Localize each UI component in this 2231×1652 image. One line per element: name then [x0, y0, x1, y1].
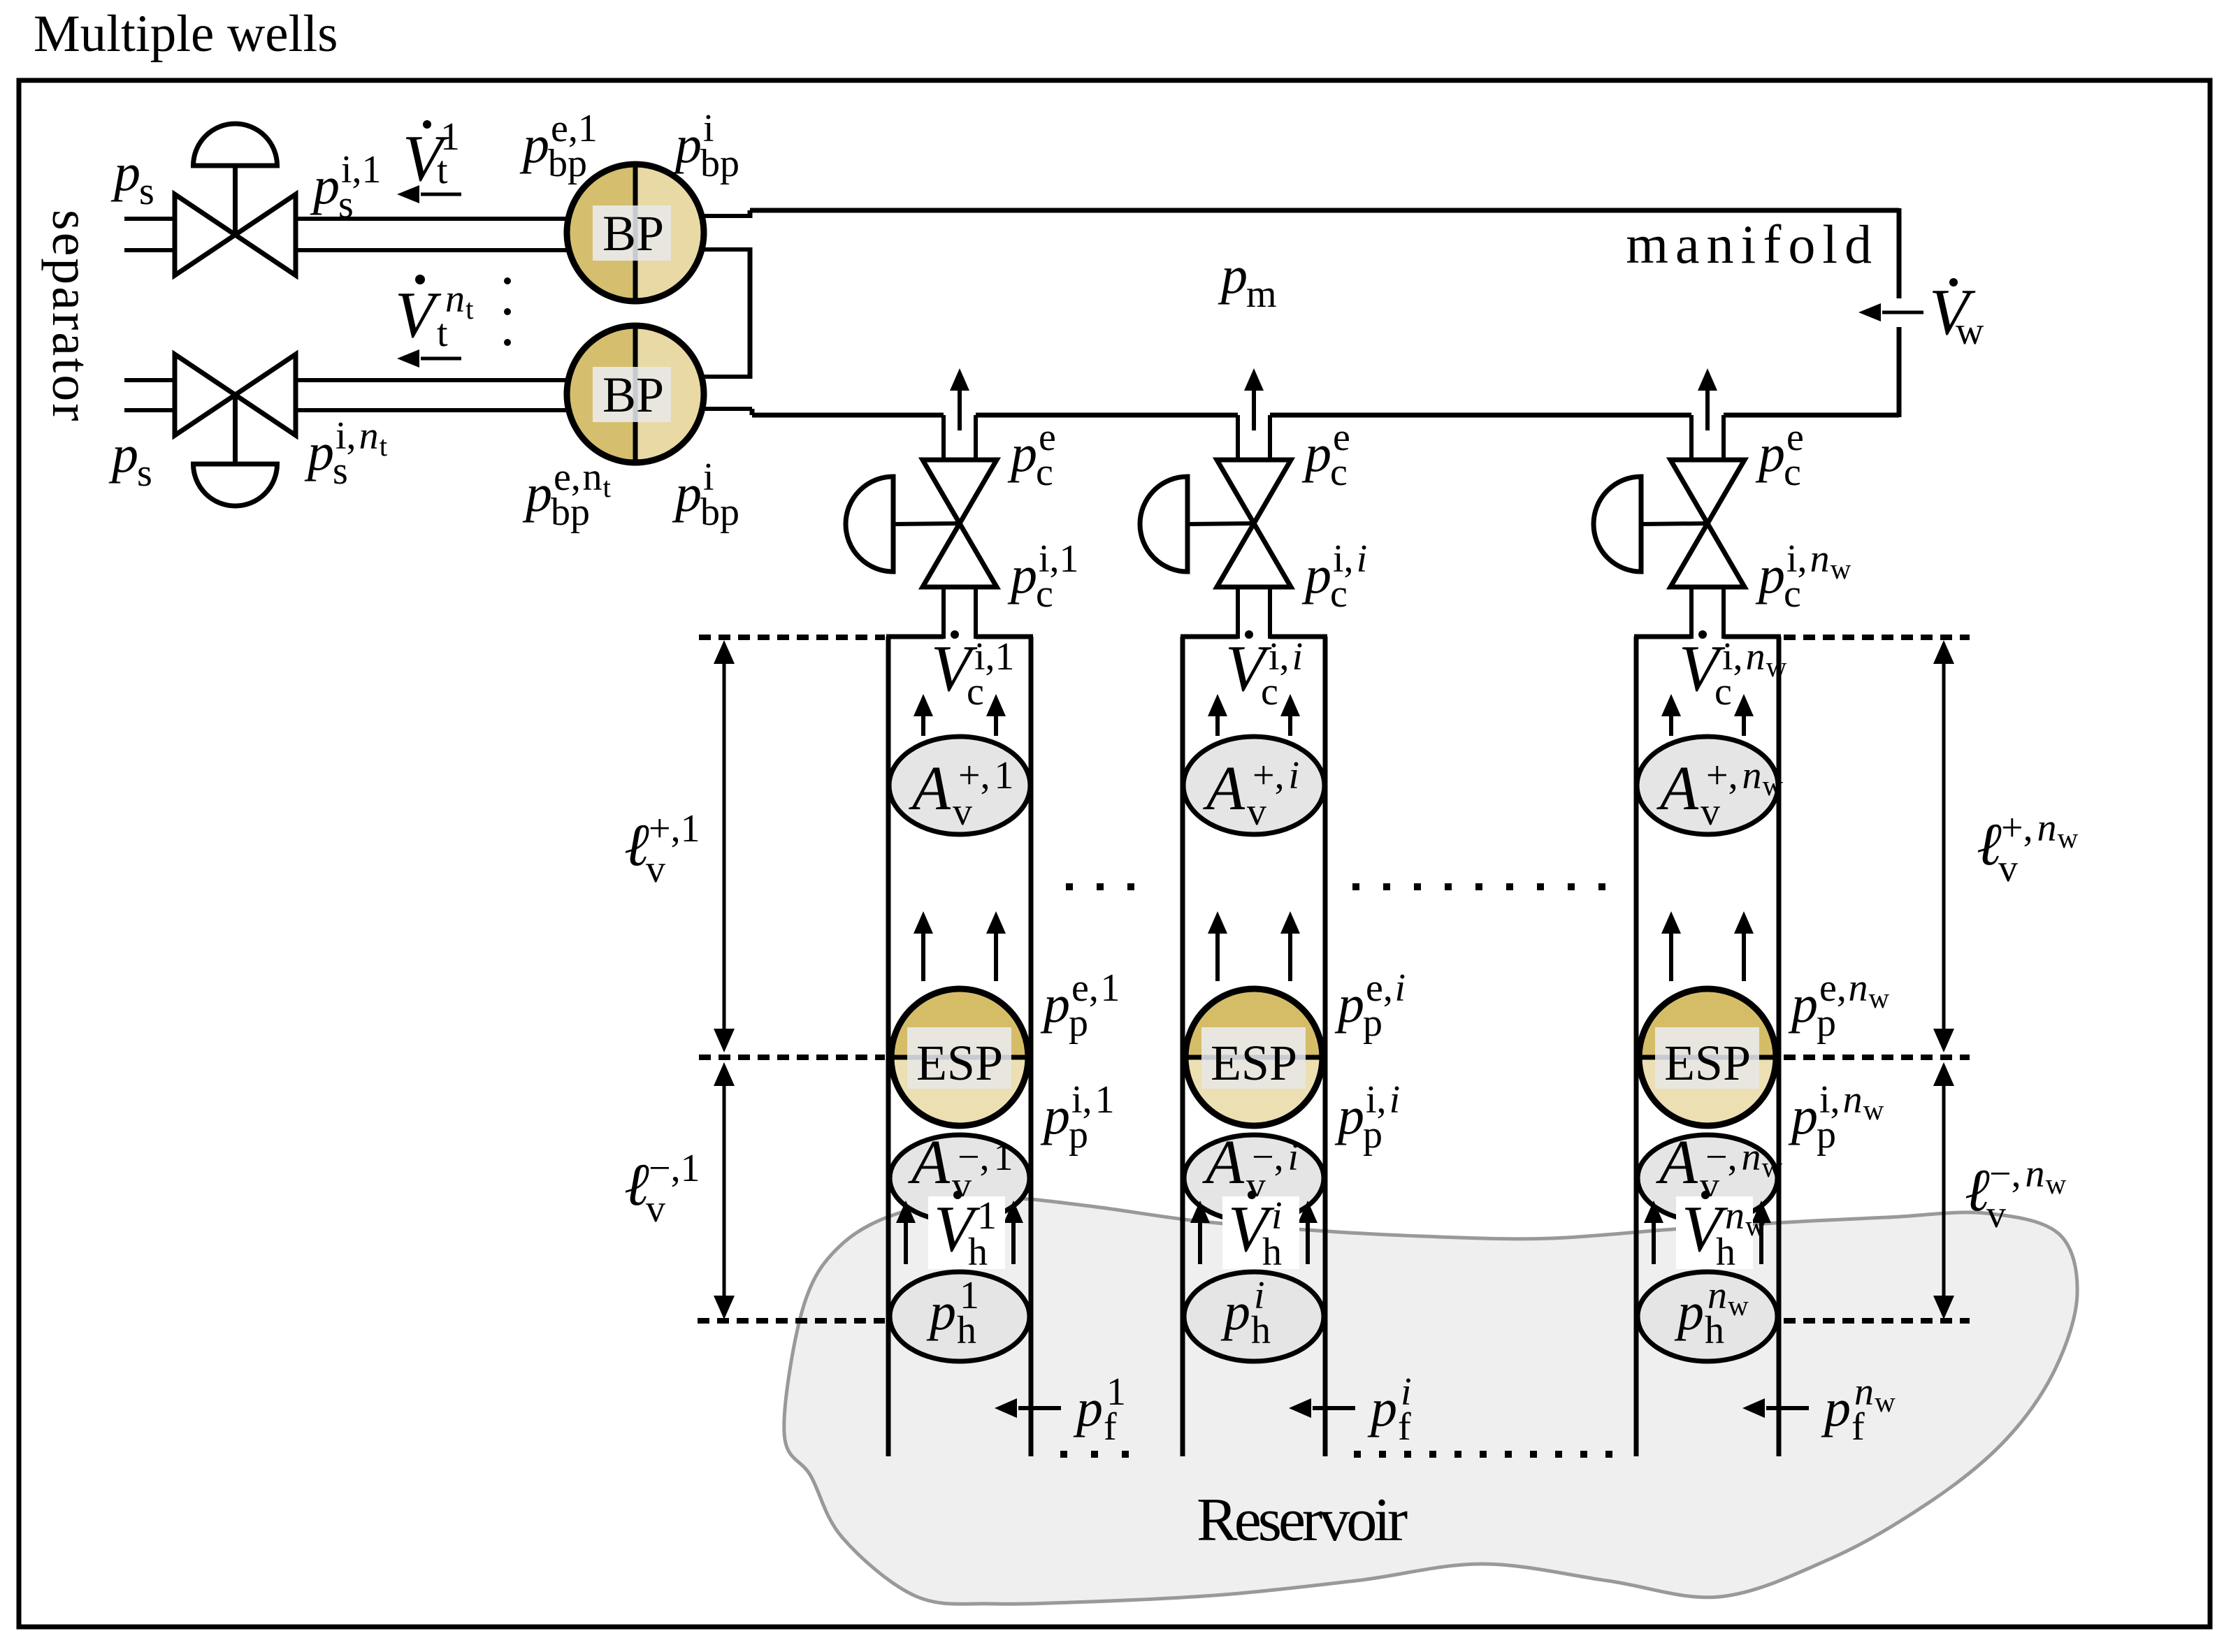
svg-text:A: A: [1203, 754, 1246, 823]
svg-text:w: w: [1745, 1210, 1766, 1242]
svg-text:f: f: [1851, 1405, 1865, 1449]
svg-text:v: v: [646, 1187, 665, 1231]
label Vdot_h well Wn_w: [1676, 1196, 1753, 1269]
valve area ellipse A_v- well Wn_w: [1638, 1135, 1777, 1222]
reservoir feed pressure arrow p_f well W1: [1018, 1406, 1061, 1410]
choke C3 dome actuator: [1641, 523, 1707, 524]
svg-text:bp: bp: [700, 142, 739, 185]
svg-text:v: v: [953, 790, 972, 834]
choke valve C2 body: [1217, 460, 1291, 523]
bottom-hole pressure ellipse p_h well Wi: [1184, 1272, 1324, 1361]
svg-text:p: p: [1040, 1087, 1070, 1145]
dashed datum line wellhead level (right): [1784, 635, 1970, 640]
svg-text:p: p: [1007, 546, 1037, 604]
well Wi flow arrows above A_v+: [1215, 715, 1220, 736]
svg-text:p: p: [1334, 975, 1364, 1034]
svg-text:t: t: [380, 430, 388, 462]
svg-text:p: p: [672, 464, 702, 523]
svg-text:i: i: [1292, 635, 1304, 679]
choke valve C2 pipe from manifold: [1236, 415, 1240, 461]
ESP pump well Wi: [1185, 989, 1322, 1057]
choke valve C1 pipe from manifold: [941, 415, 946, 461]
svg-text:p: p: [1817, 1001, 1836, 1045]
svg-text:BP: BP: [602, 367, 664, 423]
valve area ellipse A_v+ well Wi: [1183, 737, 1324, 834]
svg-text:w: w: [1956, 310, 1984, 353]
choke valve C3 pipe from manifold: [1689, 415, 1694, 461]
well Wi casing walls: [1181, 637, 1185, 1456]
svg-text:Reservoir: Reservoir: [1197, 1486, 1408, 1554]
svg-text:w: w: [1875, 1386, 1896, 1418]
svg-text:c: c: [967, 670, 984, 713]
svg-text:c: c: [1330, 572, 1348, 616]
reservoir feed pressure arrow p_f well Wi: [1313, 1406, 1355, 1410]
svg-text:A: A: [1656, 754, 1699, 823]
svg-text:s: s: [333, 449, 348, 493]
svg-text:w: w: [1869, 982, 1890, 1014]
svg-text:s: s: [338, 183, 354, 226]
svg-text:p: p: [1755, 424, 1785, 483]
svg-text:p: p: [1007, 424, 1037, 483]
svg-text:w: w: [1728, 1289, 1749, 1321]
svg-text:w: w: [1863, 1094, 1884, 1126]
bottom-hole pressure ellipse p_h well W1: [890, 1272, 1030, 1361]
svg-text:A: A: [1202, 1128, 1245, 1197]
dots between wells (middle row, W2-W3): [1352, 883, 1359, 890]
svg-text:1: 1: [994, 1136, 1013, 1179]
svg-text:v: v: [1986, 1193, 2006, 1236]
svg-text:p: p: [1220, 1282, 1250, 1341]
svg-text:V: V: [395, 279, 442, 352]
svg-text:bp: bp: [551, 491, 590, 534]
svg-text:v: v: [1701, 790, 1720, 834]
well Wn_w top edge: [1634, 635, 1691, 639]
svg-text:h: h: [968, 1231, 988, 1274]
svg-text:p: p: [1363, 1001, 1382, 1045]
svg-text:p: p: [1069, 1001, 1088, 1045]
ESP pump well W1: [891, 989, 1028, 1057]
svg-text:ESP: ESP: [1211, 1035, 1297, 1091]
svg-text:w: w: [1831, 553, 1851, 585]
reservoir feed pressure arrow p_f well Wn_w: [1766, 1406, 1809, 1410]
svg-text:i: i: [1288, 1136, 1299, 1179]
svg-text:p: p: [1363, 1113, 1382, 1157]
svg-text:1: 1: [1100, 966, 1120, 1010]
dashed datum line bottom-hole level (left): [698, 1318, 885, 1324]
well W1 flow arrows above A_v+: [921, 715, 925, 736]
separator stub pipes valve V2: [124, 378, 174, 382]
svg-text:p: p: [110, 143, 140, 202]
svg-text:n: n: [1843, 1078, 1863, 1122]
svg-text:p: p: [672, 115, 702, 174]
svg-text:separator: separator: [41, 210, 100, 423]
svg-text:v: v: [1998, 847, 2018, 890]
svg-text:n: n: [2026, 1152, 2045, 1196]
vertical dots between tie-lines: [504, 277, 511, 284]
svg-text:p: p: [522, 464, 552, 523]
choke C1 dome actuator: [893, 523, 960, 524]
pipe BP1 inlet / BP2 inlet vertical bus: [701, 247, 750, 252]
svg-text:f: f: [1398, 1405, 1411, 1449]
svg-text:t: t: [437, 312, 448, 355]
well Wi inflow arrows from reservoir: [1198, 1222, 1202, 1264]
svg-text:p: p: [1674, 1282, 1704, 1341]
svg-text:c: c: [1261, 670, 1278, 713]
svg-text:h: h: [1262, 1231, 1282, 1274]
dashed datum line wellhead level (left): [699, 635, 885, 640]
svg-text:c: c: [1036, 451, 1053, 494]
svg-text:1: 1: [1095, 1078, 1115, 1122]
svg-text:h: h: [957, 1309, 976, 1352]
valve area ellipse A_v+ well W1: [889, 737, 1030, 834]
svg-text:t: t: [437, 149, 448, 192]
svg-text:Multiple wells: Multiple wells: [34, 5, 338, 63]
dashed datum line ESP level (left): [699, 1055, 885, 1060]
svg-text:p: p: [1301, 424, 1331, 483]
svg-text:h: h: [1716, 1231, 1735, 1274]
svg-text:n: n: [1746, 635, 1766, 679]
svg-text:p: p: [1788, 1087, 1818, 1145]
choke C3 pipe to well: [1689, 587, 1694, 639]
svg-text:p: p: [1073, 1379, 1103, 1437]
svg-text:p: p: [304, 423, 334, 481]
svg-text:h: h: [1705, 1309, 1724, 1352]
svg-text:p: p: [310, 157, 340, 215]
svg-text:m: m: [1246, 273, 1277, 316]
well W1 flow arrows above ESP: [921, 932, 925, 981]
flow V_w arrow into manifold: [1882, 311, 1923, 314]
svg-text:p: p: [108, 425, 138, 484]
dimension line l_v (left well): [714, 640, 735, 664]
dimension line l_v (right well): [1933, 640, 1954, 664]
pipe BP2 outlet to manifold bottom: [701, 407, 752, 411]
well Wi top edge: [1181, 635, 1238, 639]
svg-text:p: p: [926, 1282, 956, 1341]
dashed datum line ESP level (right): [1784, 1055, 1970, 1060]
booster pump BP1: [567, 164, 635, 301]
choke C2 dome actuator: [1187, 523, 1254, 524]
svg-text:i: i: [1394, 966, 1406, 1010]
svg-text:−,: −,: [1989, 1152, 2021, 1196]
separator stub pipes valve V1: [124, 217, 174, 221]
pipe BP1 outlet to manifold top: [701, 214, 752, 218]
svg-text:v: v: [1247, 790, 1266, 834]
svg-text:+,: +,: [2001, 806, 2033, 850]
svg-text:bp: bp: [700, 491, 739, 534]
svg-text:n: n: [1742, 754, 1762, 797]
svg-text:w: w: [2058, 822, 2079, 854]
svg-text:c: c: [1330, 451, 1348, 494]
svg-text:p: p: [1040, 975, 1070, 1034]
svg-text:p: p: [1218, 246, 1248, 305]
svg-text:ESP: ESP: [916, 1035, 1003, 1091]
svg-text:p: p: [1755, 546, 1785, 604]
choke C2 pipe to well: [1236, 587, 1240, 639]
svg-text:A: A: [909, 754, 951, 823]
svg-text:p: p: [1367, 1379, 1397, 1437]
svg-text:p: p: [1301, 546, 1331, 604]
svg-text:p: p: [1334, 1087, 1364, 1145]
svg-text:+,1: +,1: [649, 807, 700, 850]
svg-text:n: n: [1742, 1136, 1761, 1179]
booster pump BP2: [567, 326, 635, 463]
svg-text:n: n: [1848, 966, 1868, 1010]
svg-text:p: p: [1821, 1379, 1851, 1437]
reservoir region: [784, 1198, 2077, 1604]
svg-text:n: n: [359, 414, 379, 458]
svg-text:p: p: [1069, 1113, 1088, 1157]
svg-text:i: i: [1357, 537, 1368, 581]
well W1 top edge: [886, 635, 944, 639]
separator valve V1 (top, dome actuator above): [175, 194, 236, 275]
svg-text:n: n: [1810, 537, 1830, 581]
well Wn_w inflow arrows from reservoir: [1652, 1222, 1656, 1264]
valve area ellipse A_v+ well Wn_w: [1637, 737, 1778, 834]
well W1 casing walls: [886, 637, 891, 1456]
svg-text:s: s: [139, 170, 154, 213]
svg-text:h: h: [1251, 1309, 1271, 1352]
well W1 inflow arrows from reservoir: [904, 1222, 908, 1264]
well Wn_w flow arrows above A_v+: [1669, 715, 1673, 736]
svg-text:i: i: [1289, 754, 1300, 797]
dots between wells (bottom row, W1-W2): [1060, 1451, 1067, 1458]
svg-text:n: n: [2037, 806, 2057, 850]
svg-text:A: A: [1656, 1128, 1698, 1197]
svg-text:w: w: [1766, 651, 1787, 683]
manifold right edge with V_w inlet gap: [1897, 208, 1902, 298]
svg-text:i: i: [1389, 1078, 1401, 1122]
dashed datum line bottom-hole level (right): [1784, 1318, 1970, 1324]
svg-text:p: p: [1788, 975, 1818, 1034]
svg-text:A: A: [908, 1128, 951, 1197]
svg-text:w: w: [1763, 769, 1784, 802]
svg-text:BP: BP: [602, 205, 664, 261]
svg-text:w: w: [1762, 1151, 1783, 1183]
svg-text:ESP: ESP: [1664, 1035, 1751, 1091]
choke valve C3 body: [1670, 460, 1745, 523]
svg-text:−,1: −,1: [649, 1147, 700, 1190]
choke valve C1 body: [923, 460, 997, 523]
svg-text:t: t: [465, 293, 474, 325]
svg-text:v: v: [646, 848, 665, 891]
valve area ellipse A_v- well Wi: [1184, 1135, 1324, 1222]
valve area ellipse A_v- well W1: [890, 1135, 1030, 1222]
svg-text:s: s: [137, 451, 152, 495]
svg-text:c: c: [1784, 451, 1801, 494]
svg-text:p: p: [519, 115, 549, 174]
well Wn_w casing walls: [1634, 637, 1639, 1456]
choke C1 pipe to well: [941, 587, 946, 639]
dots between wells (middle row, W1-W2): [1066, 883, 1073, 890]
choke C3 flow arrow into manifold: [1705, 389, 1710, 430]
svg-text:t: t: [603, 471, 612, 503]
pipe valve V1 to booster pump BP1: [296, 217, 580, 221]
svg-text:c: c: [1784, 572, 1801, 616]
choke C2 flow arrow into manifold: [1252, 389, 1256, 430]
svg-text:manifold: manifold: [1626, 214, 1879, 275]
bottom-hole pressure ellipse p_h well Wn_w: [1638, 1272, 1777, 1361]
label Vdot_h well W1: [928, 1196, 1005, 1269]
well Wn_w flow arrows above ESP: [1669, 932, 1673, 981]
well Wi flow arrows above ESP: [1215, 932, 1220, 981]
dots between wells (bottom row, W2-W3): [1354, 1451, 1361, 1458]
label Vdot_h well Wi: [1222, 1196, 1299, 1269]
manifold top line: [750, 208, 1899, 213]
choke C1 flow arrow into manifold: [958, 389, 962, 430]
svg-text:f: f: [1104, 1405, 1117, 1449]
manifold bottom line (with choke openings): [752, 413, 944, 418]
pipe valve V2 to booster pump BP2: [296, 378, 580, 382]
separator valve V2 (bottom, dome actuator below): [175, 354, 236, 435]
svg-text:n: n: [445, 277, 465, 321]
ESP pump well Wn_w: [1639, 989, 1776, 1057]
svg-text:c: c: [1714, 670, 1732, 713]
svg-text:w: w: [2046, 1168, 2067, 1200]
svg-text:1: 1: [995, 754, 1014, 797]
svg-text:bp: bp: [548, 142, 587, 185]
svg-text:p: p: [1817, 1113, 1836, 1157]
svg-text:c: c: [1036, 572, 1053, 616]
